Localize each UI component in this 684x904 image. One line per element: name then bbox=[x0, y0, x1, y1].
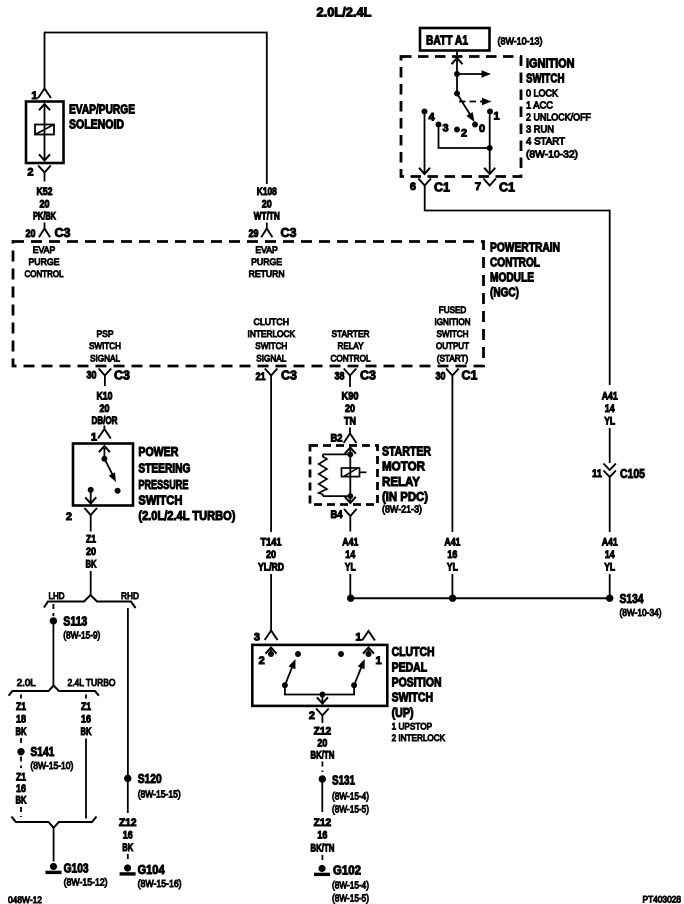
svg-text:YL/RD: YL/RD bbox=[258, 562, 284, 574]
svg-text:3: 3 bbox=[443, 123, 449, 135]
label (8W-10-13) bbox=[498, 37, 543, 48]
node: ignition feed junction bbox=[454, 71, 460, 77]
svg-text:FUSED: FUSED bbox=[439, 305, 467, 316]
wire common to pin 2 bbox=[285, 685, 354, 703]
wire A41 16 YL from PCM 30 C1 bbox=[451, 376, 453, 532]
svg-text:MOTOR: MOTOR bbox=[382, 460, 425, 474]
label POWER STEERING PRESSURE SWITCH (2.0L/2.4L TURBO) bbox=[138, 445, 235, 523]
label (8W-10-34) bbox=[620, 608, 662, 619]
svg-text:K52: K52 bbox=[37, 186, 53, 198]
svg-text:16: 16 bbox=[317, 830, 327, 842]
wire to G103 bbox=[53, 828, 55, 862]
svg-text:048W-12: 048W-12 bbox=[8, 895, 42, 904]
svg-text:2: 2 bbox=[27, 167, 33, 179]
svg-text:1: 1 bbox=[31, 90, 37, 102]
svg-text:EVAP: EVAP bbox=[33, 245, 56, 256]
svg-text:(8W-10-13): (8W-10-13) bbox=[498, 37, 543, 48]
connector pin B2 of starter motor relay bbox=[331, 428, 357, 445]
node junction on S134 bbox=[449, 595, 456, 602]
svg-text:S113: S113 bbox=[63, 615, 87, 629]
svg-text:20: 20 bbox=[26, 228, 36, 240]
wire bbox=[90, 571, 92, 595]
svg-text:20: 20 bbox=[86, 546, 96, 558]
svg-text:Z1: Z1 bbox=[16, 772, 26, 784]
svg-text:BATT A1: BATT A1 bbox=[426, 34, 468, 48]
svg-text:4 START: 4 START bbox=[526, 137, 565, 148]
ground G103 bbox=[46, 862, 89, 876]
svg-text:21: 21 bbox=[256, 371, 266, 383]
svg-text:CLUTCH: CLUTCH bbox=[254, 317, 290, 328]
svg-text:SWITCH: SWITCH bbox=[138, 494, 182, 508]
wire Z1 16 BK (2.4L TURBO) bbox=[85, 695, 87, 700]
svg-text:POSITION: POSITION bbox=[392, 676, 442, 690]
svg-text:(IN PDC): (IN PDC) bbox=[382, 490, 428, 504]
drawing number PT403028 bbox=[643, 895, 682, 904]
svg-text:EVAP/PURGE: EVAP/PURGE bbox=[69, 103, 135, 117]
wire bbox=[451, 574, 453, 596]
svg-text:G102: G102 bbox=[333, 864, 361, 878]
svg-text:(8W-15-15): (8W-15-15) bbox=[138, 790, 181, 801]
svg-text:1: 1 bbox=[376, 655, 382, 667]
label (8W-15-16) bbox=[138, 879, 182, 890]
svg-text:BK: BK bbox=[16, 726, 27, 738]
label 2.0L bbox=[17, 678, 36, 689]
svg-text:14: 14 bbox=[345, 549, 356, 561]
svg-text:SIGNAL: SIGNAL bbox=[90, 353, 120, 364]
svg-text:2.4L TURBO: 2.4L TURBO bbox=[68, 678, 116, 689]
svg-text:(8W-10-34): (8W-10-34) bbox=[620, 608, 662, 619]
svg-text:RELAY: RELAY bbox=[338, 341, 365, 352]
svg-text:RELAY: RELAY bbox=[382, 475, 421, 489]
svg-text:PK/BK: PK/BK bbox=[33, 211, 56, 223]
svg-text:C3: C3 bbox=[281, 226, 297, 240]
label (8W-15-4) (8W-15-5) bbox=[332, 792, 369, 816]
svg-text:0 LOCK: 0 LOCK bbox=[526, 89, 558, 100]
switch S3 CLUTCH PEDAL POSITION SWITCH box bbox=[252, 645, 387, 706]
svg-text:PT403028: PT403028 bbox=[643, 895, 682, 904]
svg-text:PURGE: PURGE bbox=[29, 257, 60, 268]
wire (dashed) to S113 bbox=[52, 604, 54, 616]
svg-text:K90: K90 bbox=[342, 391, 359, 403]
connector pin 2 of EVAP/PURGE solenoid bbox=[27, 166, 50, 182]
svg-text:16: 16 bbox=[16, 783, 26, 795]
wire contact 3 to terminal 7 bbox=[439, 128, 490, 149]
svg-text:20: 20 bbox=[317, 738, 327, 750]
wire bbox=[270, 574, 272, 631]
svg-text:LHD: LHD bbox=[49, 591, 65, 602]
svg-text:G103: G103 bbox=[64, 862, 89, 876]
svg-text:C3: C3 bbox=[55, 226, 71, 240]
connector pin 1 of clutch pedal position switch bbox=[355, 631, 375, 644]
svg-text:B2: B2 bbox=[331, 433, 343, 445]
svg-text:(8W-21-3): (8W-21-3) bbox=[382, 505, 422, 516]
wire Z1 18 BK (2.0L) bbox=[20, 695, 22, 700]
drawing number 048W-12 bbox=[8, 895, 42, 904]
wire Z1 20 BK bbox=[90, 523, 92, 532]
splice S120 bbox=[124, 772, 162, 786]
node bbox=[282, 682, 288, 688]
svg-text:(8W-15-12): (8W-15-12) bbox=[64, 878, 108, 889]
wire splice bus S134 bbox=[350, 597, 609, 599]
svg-text:SWITCH: SWITCH bbox=[392, 691, 434, 705]
svg-text:Z12: Z12 bbox=[119, 817, 137, 829]
svg-text:14: 14 bbox=[605, 403, 616, 415]
svg-text:SWITCH: SWITCH bbox=[255, 341, 287, 352]
svg-text:16: 16 bbox=[447, 549, 457, 561]
svg-text:RHD: RHD bbox=[121, 591, 139, 602]
svg-text:6: 6 bbox=[410, 181, 416, 193]
svg-text:B4: B4 bbox=[331, 509, 344, 521]
svg-text:3 RUN: 3 RUN bbox=[526, 125, 554, 136]
svg-text:SWITCH: SWITCH bbox=[437, 329, 469, 340]
node: rotor pivot bbox=[454, 91, 460, 97]
relay K1 STARTER MOTOR RELAY box bbox=[310, 446, 378, 505]
wire (dashed) bbox=[321, 855, 323, 863]
splice branch LHD/RHD bbox=[44, 595, 136, 608]
label (8W-15-12) bbox=[64, 878, 108, 889]
connector pin 2 of clutch pedal position switch bbox=[309, 709, 329, 724]
svg-text:(8W-15-10): (8W-15-10) bbox=[30, 761, 73, 772]
wire BATT A1 to ignition switch bbox=[456, 51, 458, 59]
svg-text:POWERTRAIN: POWERTRAIN bbox=[490, 241, 560, 255]
wire contact 1 to terminal 7 bbox=[484, 115, 495, 175]
svg-text:PEDAL: PEDAL bbox=[392, 661, 428, 675]
wire T141 20 YL/RD bbox=[270, 383, 272, 533]
label POWERTRAIN CONTROL MODULE (NGC) bbox=[490, 241, 560, 300]
svg-text:PSP: PSP bbox=[97, 329, 114, 340]
svg-text:30: 30 bbox=[436, 371, 446, 383]
connector pin 21 C3 (CLUTCH INTERLOCK SWITCH SIGNAL) bbox=[256, 369, 298, 384]
svg-text:2: 2 bbox=[309, 710, 315, 722]
solenoid L1 EVAP/PURGE SOLENOID bbox=[26, 102, 64, 164]
wire Z12 20 BK/TN bbox=[310, 726, 334, 762]
svg-text:T141: T141 bbox=[261, 537, 282, 549]
svg-text:20: 20 bbox=[100, 403, 110, 415]
connector pin 3 of clutch pedal position switch bbox=[254, 631, 278, 644]
svg-text:IGNITION: IGNITION bbox=[435, 317, 471, 328]
wire K90 20 TN bbox=[349, 383, 351, 388]
wire (dashed) bbox=[20, 738, 22, 747]
svg-text:Z12: Z12 bbox=[314, 817, 332, 829]
svg-text:CONTROL: CONTROL bbox=[490, 256, 540, 270]
node bbox=[351, 682, 357, 688]
label (8W-15-10) bbox=[30, 761, 73, 772]
svg-text:STARTER: STARTER bbox=[332, 329, 370, 340]
svg-text:YL: YL bbox=[345, 562, 356, 574]
wire (dashed) bbox=[127, 854, 129, 862]
ignition switch position contacts 4 3 2 0 1 bbox=[422, 109, 436, 124]
splice S113 bbox=[50, 615, 88, 629]
svg-text:C3: C3 bbox=[114, 369, 130, 383]
svg-text:BK/TN: BK/TN bbox=[310, 750, 334, 762]
svg-text:2 INTERLOCK: 2 INTERLOCK bbox=[392, 733, 446, 744]
svg-text:PURGE: PURGE bbox=[251, 257, 282, 268]
svg-text:CONTROL: CONTROL bbox=[331, 353, 371, 364]
svg-text:A41: A41 bbox=[444, 537, 460, 549]
wire K108 20 WT/TN bbox=[254, 186, 280, 223]
svg-text:C1: C1 bbox=[499, 181, 515, 195]
svg-text:BK: BK bbox=[81, 726, 92, 738]
svg-text:7: 7 bbox=[475, 181, 481, 193]
resistor (relay coil suppression) bbox=[319, 454, 327, 496]
svg-text:DB/OR: DB/OR bbox=[92, 415, 118, 427]
svg-text:2: 2 bbox=[66, 511, 72, 523]
ground G102 bbox=[314, 864, 361, 878]
clutch switch blade (left) bbox=[285, 659, 296, 685]
in-line connector 11 C105 bbox=[592, 464, 645, 482]
rotor direction arrow (solid) bbox=[457, 70, 491, 78]
label RHD bbox=[121, 591, 139, 602]
svg-text:STARTER: STARTER bbox=[382, 445, 431, 459]
rotor blade arrow toward position 0 bbox=[457, 94, 475, 123]
svg-text:RETURN: RETURN bbox=[249, 269, 285, 280]
svg-text:C3: C3 bbox=[360, 369, 376, 383]
svg-text:3: 3 bbox=[254, 632, 260, 644]
svg-text:S141: S141 bbox=[30, 745, 54, 759]
splice S131 bbox=[319, 774, 355, 788]
clutch switch blade (right) bbox=[354, 659, 365, 685]
battery feed BATT A1 bbox=[420, 28, 490, 51]
module U1 POWERTRAIN CONTROL MODULE (NGC) box bbox=[13, 242, 484, 367]
connector pin 1 of EVAP/PURGE solenoid bbox=[31, 89, 51, 103]
label CLUTCH PEDAL POSITION SWITCH (UP) bbox=[392, 645, 446, 744]
wire (dashed) bbox=[20, 807, 22, 817]
svg-text:(UP): (UP) bbox=[392, 706, 414, 720]
wire bbox=[85, 739, 87, 819]
svg-text:SIGNAL: SIGNAL bbox=[256, 353, 286, 364]
ignition switch feed arrow bbox=[452, 58, 463, 94]
svg-text:STEERING: STEERING bbox=[138, 462, 190, 476]
wire (dashed) bbox=[321, 762, 323, 773]
label STARTER MOTOR RELAY (IN PDC) (8W-21-3) bbox=[382, 445, 431, 516]
svg-text:C1: C1 bbox=[462, 369, 478, 383]
switch S2 POWER STEERING PRESSURE SWITCH bbox=[73, 444, 133, 506]
label IGNITION SWITCH and positions bbox=[526, 57, 591, 161]
svg-text:EVAP: EVAP bbox=[255, 245, 278, 256]
svg-text:PRESSURE: PRESSURE bbox=[138, 478, 188, 492]
svg-text:BK: BK bbox=[16, 795, 27, 807]
svg-text:YL: YL bbox=[447, 562, 458, 574]
svg-text:S120: S120 bbox=[138, 772, 162, 786]
svg-text:Z1: Z1 bbox=[86, 534, 96, 546]
wire Z1 16 BK bbox=[16, 772, 27, 807]
svg-text:(START): (START) bbox=[437, 353, 469, 364]
svg-text:C3: C3 bbox=[281, 369, 297, 383]
connector pin 20 C3 at PCM (EVAP PURGE CONTROL) bbox=[26, 223, 71, 241]
svg-text:16: 16 bbox=[123, 830, 133, 842]
svg-text:Z12: Z12 bbox=[314, 726, 332, 738]
svg-text:S134: S134 bbox=[620, 592, 644, 606]
relay coil bbox=[342, 468, 360, 477]
clutch switch contact 2 (interlock) bbox=[259, 648, 277, 668]
net label CLUTCH INTERLOCK SWITCH SIGNAL bbox=[248, 317, 296, 364]
clutch switch fixed contact bbox=[338, 651, 344, 657]
svg-text:BK/TN: BK/TN bbox=[310, 843, 334, 855]
node junction on S134 bbox=[347, 595, 354, 602]
svg-text:POWER: POWER bbox=[138, 445, 178, 459]
svg-text:(8W-15-5): (8W-15-5) bbox=[332, 805, 369, 816]
svg-text:IGNITION: IGNITION bbox=[526, 57, 575, 71]
connector pin 6 C1 of ignition switch bbox=[410, 179, 450, 195]
svg-text:CLUTCH: CLUTCH bbox=[392, 645, 435, 659]
svg-text:A41: A41 bbox=[602, 537, 618, 549]
wire K52 20 PK/BK bbox=[33, 186, 56, 223]
svg-text:(8W-15-4): (8W-15-4) bbox=[332, 881, 369, 892]
svg-text:11: 11 bbox=[592, 468, 602, 480]
svg-text:(8W-15-9): (8W-15-9) bbox=[63, 631, 100, 642]
svg-text:(8W-15-4): (8W-15-4) bbox=[332, 792, 369, 803]
svg-text:18: 18 bbox=[16, 714, 26, 726]
svg-text:Z1: Z1 bbox=[81, 701, 91, 713]
connector pin 2 of PSP switch bbox=[66, 508, 97, 523]
wire K10 20 DB/OR bbox=[104, 383, 106, 387]
svg-text:S131: S131 bbox=[332, 774, 355, 788]
ground G104 bbox=[120, 863, 165, 877]
splice branch 2.0L / 2.4L TURBO bbox=[9, 686, 99, 696]
svg-text:30: 30 bbox=[87, 370, 97, 382]
svg-text:1 ACC: 1 ACC bbox=[526, 101, 553, 112]
svg-text:YL: YL bbox=[604, 416, 615, 428]
net label FUSED IGNITION SWITCH OUTPUT (START) bbox=[435, 305, 471, 364]
svg-text:0: 0 bbox=[479, 123, 485, 135]
wire RHD branch down to S120 bbox=[127, 608, 129, 775]
label 2.4L TURBO bbox=[68, 678, 116, 689]
wire (dashed) bbox=[20, 757, 22, 769]
svg-text:Z1: Z1 bbox=[16, 701, 26, 713]
connector pin B4 of starter motor relay bbox=[331, 509, 357, 523]
clutch switch fixed contact bbox=[295, 651, 301, 657]
wire S113 down bbox=[52, 625, 54, 687]
wire bbox=[321, 783, 323, 813]
net label STARTER RELAY CONTROL bbox=[331, 329, 371, 364]
svg-text:C1: C1 bbox=[434, 181, 450, 195]
wire label A41 14 YL (upper right) bbox=[602, 391, 618, 428]
label LHD bbox=[49, 591, 65, 602]
connector pin 1 of PSP switch bbox=[91, 426, 111, 444]
svg-text:INTERLOCK: INTERLOCK bbox=[248, 329, 296, 340]
svg-text:29: 29 bbox=[249, 228, 259, 240]
svg-text:2.0L: 2.0L bbox=[17, 678, 36, 689]
svg-text:1: 1 bbox=[355, 632, 361, 644]
svg-text:BK: BK bbox=[122, 842, 133, 854]
wire Z12 16 BK/TN bbox=[310, 817, 334, 855]
clutch switch contact 1 (upstop) bbox=[363, 648, 382, 668]
label (8W-15-15) bbox=[138, 790, 181, 801]
net label EVAP PURGE CONTROL bbox=[25, 245, 64, 280]
svg-text:(8W-15-16): (8W-15-16) bbox=[138, 879, 182, 890]
svg-text:SOLENOID: SOLENOID bbox=[69, 118, 124, 132]
svg-text:(8W-15-5): (8W-15-5) bbox=[332, 894, 369, 904]
wire A41 14 YL (from relay) bbox=[349, 523, 351, 532]
svg-text:BK: BK bbox=[86, 559, 97, 571]
svg-text:A41: A41 bbox=[602, 391, 618, 403]
svg-text:4: 4 bbox=[429, 112, 436, 124]
wire bbox=[609, 477, 611, 532]
svg-text:2: 2 bbox=[461, 128, 467, 140]
svg-text:TN: TN bbox=[344, 416, 356, 428]
svg-text:20: 20 bbox=[262, 199, 272, 211]
wire label A41 14 YL (lower right) bbox=[602, 537, 618, 574]
svg-text:1: 1 bbox=[494, 111, 500, 123]
svg-text:20: 20 bbox=[40, 199, 50, 211]
connector pin 30 C1 (FUSED IGNITION SWITCH OUTPUT) bbox=[436, 369, 478, 383]
wire bbox=[609, 574, 611, 595]
svg-text:G104: G104 bbox=[138, 863, 165, 877]
splice S141 bbox=[17, 745, 54, 759]
svg-text:K10: K10 bbox=[97, 391, 113, 403]
svg-text:16: 16 bbox=[81, 714, 91, 726]
label EVAP/PURGE SOLENOID bbox=[69, 103, 135, 132]
label (8W-15-9) bbox=[63, 631, 100, 642]
ignition switch S1 box bbox=[401, 57, 521, 177]
title 2.0L/2.4L bbox=[317, 6, 372, 20]
svg-text:OUTPUT: OUTPUT bbox=[436, 341, 469, 352]
rotor direction arrow (dashed) bbox=[459, 98, 492, 105]
wire from EVAP/PURGE solenoid pin 1 up and across to K108 circuit bbox=[45, 33, 267, 185]
svg-text:1 UPSTOP: 1 UPSTOP bbox=[392, 722, 433, 733]
wire bbox=[349, 574, 351, 596]
svg-text:SWITCH: SWITCH bbox=[526, 72, 565, 86]
svg-text:14: 14 bbox=[605, 549, 616, 561]
svg-text:A41: A41 bbox=[342, 537, 358, 549]
splice S134 bbox=[606, 592, 644, 606]
svg-text:2 UNLOCK/OFF: 2 UNLOCK/OFF bbox=[526, 113, 591, 124]
connector pin 38 C3 (STARTER RELAY CONTROL) bbox=[335, 369, 377, 383]
splice merge to G103 bbox=[11, 817, 96, 828]
svg-text:MODULE: MODULE bbox=[490, 271, 534, 285]
wire A41 from ignition terminal 6 down right side bbox=[425, 194, 610, 386]
connector pin 29 C3 at PCM (EVAP PURGE RETURN) bbox=[249, 223, 297, 241]
svg-text:2.0L/2.4L: 2.0L/2.4L bbox=[317, 6, 372, 20]
svg-text:38: 38 bbox=[335, 371, 345, 383]
relay coil circuit bbox=[319, 448, 367, 504]
svg-text:SWITCH: SWITCH bbox=[89, 341, 121, 352]
svg-text:(2.0L/2.4L TURBO): (2.0L/2.4L TURBO) bbox=[138, 509, 235, 523]
svg-text:CONTROL: CONTROL bbox=[25, 269, 64, 280]
svg-text:(NGC): (NGC) bbox=[490, 286, 519, 300]
net label EVAP PURGE RETURN bbox=[249, 245, 285, 280]
label (8W-15-4) (8W-15-5) bbox=[332, 881, 369, 904]
wire Z12 16 BK bbox=[127, 782, 129, 813]
svg-text:(8W-10-32): (8W-10-32) bbox=[526, 150, 578, 161]
connector pin 30 C3 (PSP SWITCH SIGNAL) bbox=[87, 369, 131, 383]
svg-text:1: 1 bbox=[91, 432, 97, 444]
svg-text:K108: K108 bbox=[257, 186, 277, 198]
svg-text:20: 20 bbox=[345, 403, 355, 415]
net label PSP SWITCH SIGNAL bbox=[89, 329, 121, 364]
wire bbox=[609, 428, 611, 463]
node: junction under contact 1 bbox=[487, 145, 493, 151]
wire contact 4 to terminal 6 bbox=[419, 115, 430, 175]
svg-text:WT/TN: WT/TN bbox=[254, 211, 280, 223]
svg-text:YL: YL bbox=[604, 562, 615, 574]
connector pin 7 C1 of ignition switch bbox=[475, 179, 515, 195]
svg-text:C105: C105 bbox=[620, 466, 645, 481]
svg-text:20: 20 bbox=[266, 549, 276, 561]
svg-text:2: 2 bbox=[259, 655, 265, 667]
